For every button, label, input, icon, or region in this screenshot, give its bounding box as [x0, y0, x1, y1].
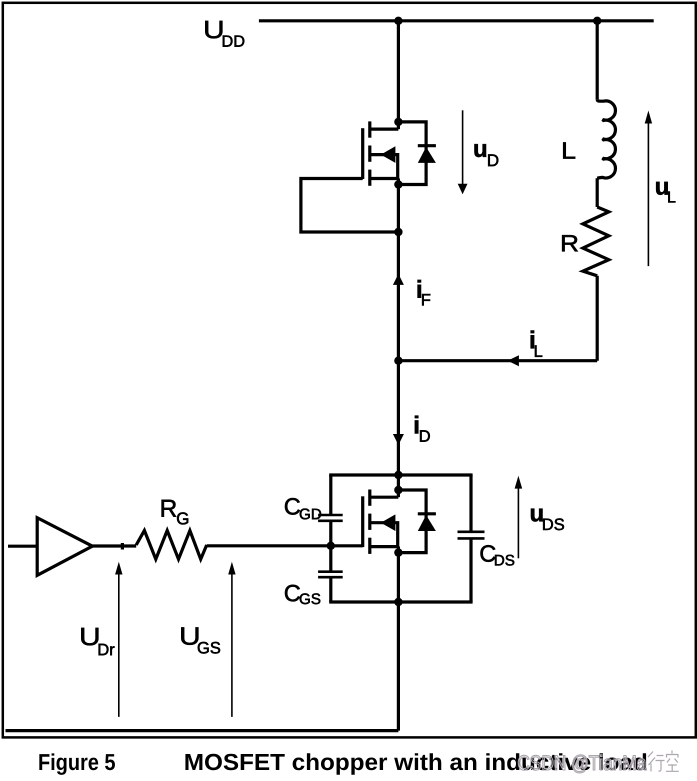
label uL	[656, 182, 675, 203]
wire: gate lead into box	[331, 544, 363, 547]
arrow uL (drop across load)	[647, 123, 649, 266]
wire: bottom return rail	[6, 729, 399, 732]
label uDS	[531, 509, 564, 531]
wire: T2 source to bottom return	[397, 547, 400, 731]
tick on gate wire	[121, 543, 124, 550]
resistor R	[583, 207, 609, 276]
watermark CSDN @TianMa	[518, 755, 646, 773]
arrow UGS	[231, 574, 233, 717]
wire: resistor R down to iL corner	[596, 276, 599, 361]
wire: UDD supply rail	[259, 19, 654, 22]
wire: iL horizontal return to main branch	[398, 359, 597, 362]
label RG	[162, 500, 189, 525]
diode D2 (T2 body diode)	[398, 490, 436, 553]
label UGS	[181, 627, 220, 653]
node: rail / drain branch junction	[394, 17, 402, 25]
lower MOSFET package box (top and bottom edges)	[329, 475, 472, 602]
label UDD	[205, 21, 244, 47]
wire: RG to T2 gate	[207, 544, 331, 547]
arrow UDr	[118, 574, 120, 717]
node: T2 source	[394, 548, 402, 556]
wire: T1 gate-source short loop	[301, 179, 399, 233]
diode D1 (T1 body diode)	[398, 122, 436, 185]
wire: driver output to RG	[92, 544, 136, 547]
node: box bottom	[394, 598, 402, 606]
arrowhead iL (current left)	[508, 355, 519, 366]
arrow uD (drop across T1)	[462, 110, 464, 184]
label R	[562, 235, 578, 251]
op-amp driver U1 (gate driver buffer)	[37, 518, 92, 576]
wire: box right with CDS gap	[469, 475, 472, 602]
label CGD	[285, 498, 321, 519]
node: gate / box left junction	[327, 542, 335, 550]
capacitor CGD plates	[318, 515, 343, 521]
label iF	[418, 280, 431, 305]
label iL	[531, 331, 543, 357]
capacitor CDS plates	[458, 532, 485, 539]
arrowhead iD (current down)	[393, 434, 404, 445]
wire: T1 source down to lower box	[397, 179, 400, 498]
node: T1 drain	[394, 118, 402, 126]
node: T2 drain	[394, 486, 402, 494]
inductor L	[597, 99, 615, 178]
capacitor CGS plates	[318, 572, 343, 578]
caption: title	[185, 753, 646, 775]
label L	[563, 142, 575, 158]
wire: rail to T1 drain	[397, 21, 400, 129]
node: gate-source loop junction	[394, 228, 402, 236]
wire: driver input lead	[8, 545, 37, 548]
label UDr	[81, 628, 114, 655]
label CDS	[480, 545, 514, 565]
node: iL / main branch junction	[394, 357, 402, 365]
wire: load branch from rail to inductor	[596, 21, 599, 100]
label iD	[415, 416, 430, 442]
resistor RG	[136, 531, 207, 560]
transistor T2 (chopper MOSFET)	[363, 490, 399, 554]
label uD	[474, 144, 498, 166]
watermark CJK glyphs	[648, 751, 679, 772]
node: T1 source / diode join	[394, 180, 402, 188]
wire: inductor to resistor R	[596, 178, 599, 207]
arrow uDS	[517, 488, 519, 558]
wire: box left with CGS gap	[329, 546, 332, 602]
caption: Figure 5	[39, 753, 115, 775]
arrowhead iF (current up)	[393, 274, 404, 285]
label CGS	[285, 585, 320, 604]
node: rail / load branch junction	[593, 17, 601, 25]
transistor T1 (high-side MOSFET, gate tied to source)	[363, 121, 399, 185]
wire: box left with CGD gap	[329, 475, 332, 546]
node: box top	[394, 471, 402, 479]
